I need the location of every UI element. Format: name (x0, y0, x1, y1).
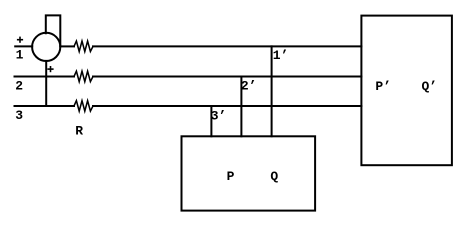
svg-text:1’: 1’ (273, 48, 289, 63)
svg-text:3’: 3’ (211, 108, 227, 123)
plus sign at terminal 1 (17, 39, 23, 41)
source circle G1 (32, 33, 60, 61)
wire from source bottom to wire 3 (45, 61, 47, 106)
resistor R1 (74, 41, 93, 51)
svg-text:P: P (227, 169, 235, 184)
resistor R3 (74, 101, 93, 111)
wire 3 from resistor to right box (93, 105, 361, 107)
wire 2 (15, 76, 75, 78)
wire drop 3' (210, 106, 212, 136)
wire 3 (15, 105, 75, 107)
svg-text:2: 2 (15, 78, 23, 93)
box P' Q' (361, 16, 452, 166)
svg-text:Q’: Q’ (422, 79, 438, 94)
wire drop 2' (240, 77, 242, 137)
box P Q (182, 136, 316, 210)
svg-text:1: 1 (16, 47, 24, 62)
svg-text:2’: 2’ (241, 78, 257, 93)
svg-text:P’: P’ (375, 79, 391, 94)
wire drop 1' (271, 46, 273, 136)
rectangle on top of source (46, 15, 61, 46)
wire 1 left stub (15, 45, 32, 47)
resistor R2 (74, 71, 93, 81)
svg-text:R: R (75, 124, 83, 139)
wire 1 from resistor to right box (93, 45, 361, 47)
wire 2 from resistor to right box (93, 76, 361, 78)
plus sign at source bottom (47, 68, 53, 70)
svg-text:3: 3 (15, 108, 23, 123)
wire 1 from source to resistor (60, 45, 74, 47)
svg-text:Q: Q (270, 169, 278, 184)
